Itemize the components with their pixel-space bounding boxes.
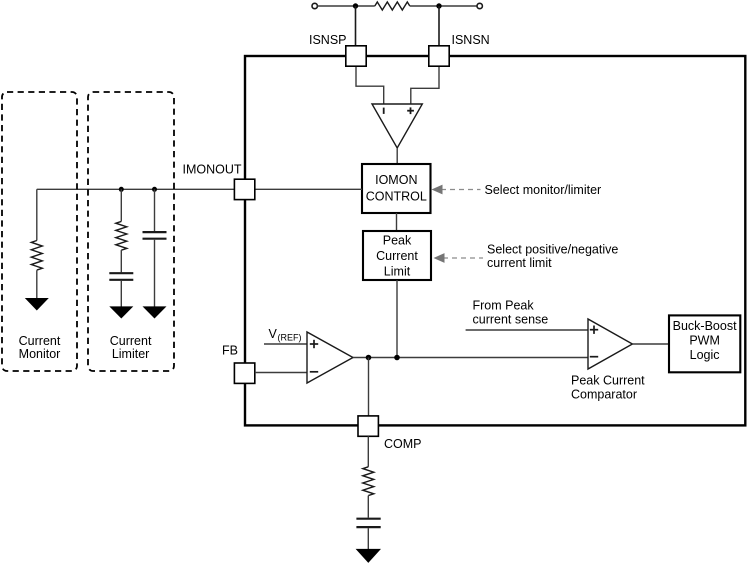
svg-text:Select monitor/limiter: Select monitor/limiter: [485, 183, 602, 197]
svg-text:IMONOUT: IMONOUT: [183, 163, 242, 177]
svg-text:Current: Current: [376, 249, 418, 263]
wire VREF to error amp positive input: [264, 343, 307, 345]
svg-text:ISNSN: ISNSN: [452, 33, 490, 47]
wire limiter branch B lower: [154, 240, 156, 307]
resistor RSNS (current sense resistor): [375, 2, 410, 10]
resistor R1 current monitor: [31, 241, 42, 271]
label Current Monitor: [19, 334, 61, 361]
label VREF: [269, 327, 302, 343]
svg-text:CONTROL: CONTROL: [366, 189, 427, 203]
svg-text:Current: Current: [110, 334, 152, 348]
svg-text:Current: Current: [19, 334, 61, 348]
wire down to COMP pin: [368, 358, 370, 417]
svg-text:Monitor: Monitor: [19, 347, 61, 361]
svg-text:COMP: COMP: [384, 437, 422, 451]
node ISNSN junction: [436, 3, 441, 8]
pin ISNSP: [346, 46, 366, 66]
svg-text:ISNSP: ISNSP: [309, 33, 347, 47]
svg-text:Limit: Limit: [384, 265, 411, 279]
wire resistor to capacitor: [367, 496, 369, 518]
node junction limiter branch A: [119, 187, 124, 192]
svg-text:Select positive/negative: Select positive/negative: [487, 243, 618, 257]
op-amp U1 current sense amplifier: [372, 104, 422, 148]
capacitor C1 limiter branch A: [109, 273, 133, 280]
node junction limiter branch B: [152, 187, 157, 192]
ground arrow compensation: [356, 549, 381, 563]
wire error amp output to peak comparator negative input: [353, 357, 588, 359]
wire ISNSN drop to pin: [438, 6, 440, 46]
wire capacitor to ground: [367, 528, 369, 549]
svg-text:Buck-Boost: Buck-Boost: [673, 319, 737, 333]
svg-text:Limiter: Limiter: [112, 347, 150, 361]
ground arrow current monitor: [25, 298, 49, 311]
svg-text:(REF): (REF): [278, 333, 302, 343]
svg-text:IOMON: IOMON: [375, 173, 417, 187]
wire COMP pin down: [367, 436, 369, 467]
node ISNSP junction: [353, 3, 358, 8]
dashed arrow select monitor/limiter: [432, 185, 481, 195]
node peak limit junction: [394, 355, 400, 361]
label From Peak current sense: [473, 299, 549, 327]
block IOMON CONTROL: [362, 164, 431, 213]
block Peak Current Limit: [363, 231, 431, 280]
wire limiter branch A lower: [120, 281, 122, 307]
dashed box Current Monitor: [2, 92, 77, 371]
wire amp output to IOMON CONTROL: [396, 148, 398, 164]
wire FB pin to error amp negative input: [255, 372, 307, 374]
terminal right (open circle): [477, 3, 482, 8]
IC boundary box: [245, 56, 745, 425]
pin IMONOUT: [234, 179, 254, 199]
wire limiter branch A middle: [120, 250, 122, 272]
wire Peak Current Limit down to comparator node: [396, 280, 398, 358]
dashed box Current Limiter: [88, 92, 174, 371]
wire top right segment: [410, 5, 477, 7]
op-amp U2 error amplifier: [307, 332, 353, 383]
svg-text:Peak: Peak: [383, 234, 412, 248]
dashed arrow select positive/negative: [434, 253, 484, 263]
svg-text:PWM: PWM: [689, 334, 720, 348]
wire ISNSN pin to amp positive input: [411, 66, 439, 104]
svg-text:current sense: current sense: [473, 313, 549, 327]
terminal left (open circle): [312, 3, 317, 8]
label Current Limiter: [110, 334, 152, 361]
op-amp U3 peak current comparator: [588, 319, 632, 369]
pin FB: [234, 363, 254, 383]
pin COMP: [358, 416, 378, 436]
svg-text:current limit: current limit: [487, 256, 552, 270]
label Select positive/negative current limit: [487, 243, 618, 270]
wire limiter branch A upper: [120, 189, 122, 221]
node COMP junction: [366, 355, 372, 361]
resistor R2 current limiter: [116, 221, 127, 250]
ground arrow limiter branch B: [143, 306, 167, 318]
wire limiter branch B upper: [154, 189, 156, 231]
wire monitor branch upper: [36, 189, 38, 240]
wire comparator output to PWM logic: [632, 343, 669, 345]
wire ISNSP pin to amp negative input: [356, 66, 384, 104]
wire ISNSP drop to pin: [355, 6, 357, 46]
block Buck-Boost PWM Logic: [669, 315, 740, 372]
pin ISNSN: [429, 46, 449, 66]
label Peak Current Comparator: [571, 373, 645, 401]
capacitor C3 compensation: [356, 519, 380, 527]
wire monitor branch lower: [36, 270, 38, 299]
wire from peak current sense to comparator positive input: [466, 329, 588, 331]
wire top left segment: [317, 5, 374, 7]
svg-text:Peak Current: Peak Current: [571, 373, 645, 387]
svg-text:V: V: [269, 327, 278, 341]
resistor R3 compensation: [363, 467, 374, 496]
capacitor C2 limiter branch B: [143, 232, 167, 239]
ground arrow limiter branch A: [109, 306, 133, 318]
svg-text:FB: FB: [222, 344, 238, 358]
wire IMONOUT net horizontal: [37, 188, 362, 190]
svg-text:Logic: Logic: [690, 348, 720, 362]
svg-text:Comparator: Comparator: [571, 387, 637, 401]
wire IOMON to Peak Current Limit: [396, 213, 398, 231]
svg-text:From Peak: From Peak: [473, 299, 535, 313]
